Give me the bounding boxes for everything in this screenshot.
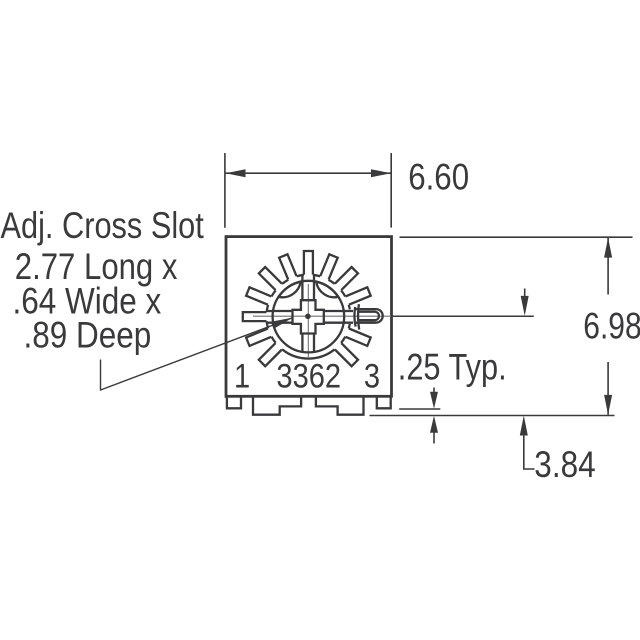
center height dim upper arrowhead: [521, 296, 529, 316]
rotor cutout top-left: [279, 282, 301, 298]
center height dim lower leader: [524, 435, 535, 469]
svg-text:6.60: 6.60: [408, 157, 469, 198]
width dim arrowheads: [226, 169, 246, 177]
height dim top extension: [400, 236, 633, 238]
svg-text:1: 1: [234, 356, 250, 395]
center height dim lower arrowhead: [520, 416, 528, 436]
adjustment cross slot: [293, 300, 324, 333]
height dim arrowheads: [604, 238, 612, 258]
height dim line: [607, 237, 609, 415]
trimmer body outline: [226, 237, 392, 397]
standoff dim lower leader: [433, 432, 435, 444]
vertical centerline: [307, 284, 309, 357]
pin 1 index foot: [227, 396, 241, 408]
center height dim upper leader: [524, 289, 526, 297]
svg-text:.25 Typ.: .25 Typ.: [398, 347, 507, 389]
svg-text:3: 3: [364, 356, 380, 395]
cross slot leader arrowhead: [271, 318, 293, 329]
width dim line: [225, 172, 391, 174]
svg-text:3.84: 3.84: [534, 444, 595, 485]
cross slot leader line: [101, 318, 293, 390]
standoff dim arrowheads: [430, 392, 438, 409]
standoff dim upper leader: [433, 388, 435, 393]
horizontal centerline: [253, 315, 391, 317]
standoff dim extension: [399, 408, 440, 410]
svg-text:6.98: 6.98: [583, 305, 640, 347]
svg-text:.89 Deep: .89 Deep: [24, 315, 152, 356]
svg-text:Adj. Cross Slot: Adj. Cross Slot: [1, 205, 205, 247]
rotor center dot: [305, 314, 311, 320]
rotor knurl teeth: [243, 251, 371, 366]
pin 3 index foot: [377, 396, 391, 408]
right standoff foot: [316, 396, 364, 414]
height dim bottom extension: [370, 415, 615, 417]
knurl root circle arcs: [267, 275, 350, 359]
svg-text:3362: 3362: [276, 356, 341, 395]
left standoff foot: [253, 396, 301, 414]
rotor stop tab: [354, 304, 382, 329]
rotor cutout top-right: [316, 282, 338, 298]
width dim extension lines: [225, 153, 391, 228]
cross slot channels: [267, 275, 353, 352]
rotor hub circle: [273, 281, 345, 353]
